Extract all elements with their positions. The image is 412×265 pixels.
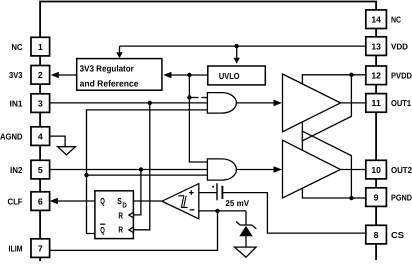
wire comp minus to zener [199, 210, 246, 212]
svg-text:and Reference: and Reference [80, 79, 139, 89]
wire AND1 output [236, 102, 274, 104]
junction dot interlock [84, 173, 88, 177]
latch R input wedge upper [129, 212, 134, 218]
pin 8 [366, 225, 387, 244]
svg-text:IN2: IN2 [10, 165, 23, 175]
latch box [95, 191, 133, 239]
wire AND2 output [236, 169, 274, 171]
junction dot IN1 [148, 101, 152, 105]
svg-text:OUT2: OUT2 [391, 165, 412, 175]
junction dot PVDD [349, 73, 353, 77]
wire enable to AND1 (with jump gap) [189, 97, 198, 99]
3V3 regulator box [77, 59, 162, 91]
svg-text:R: R [118, 225, 123, 235]
wire IN2 to latch R upper [133, 170, 141, 215]
pin 1 [31, 37, 50, 56]
wire interlock to AND2 [87, 174, 208, 176]
svg-text:4: 4 [38, 131, 43, 141]
svg-text:ILIM: ILIM [9, 243, 23, 253]
arrow into driver 2 [274, 166, 283, 173]
zener diode triangle [239, 226, 252, 236]
junction dot PGND [349, 196, 353, 200]
pin 4 [31, 127, 50, 146]
svg-text:S: S [117, 196, 122, 206]
svg-text:NC: NC [12, 42, 23, 52]
wire IN2 [50, 169, 208, 171]
wire ILIM to pin 7 [50, 211, 218, 251]
wire latch Q to pin 6 [57, 200, 95, 202]
svg-text:UVLO: UVLO [219, 71, 240, 81]
wire UVLO to 3V3 [171, 74, 208, 76]
svg-text:IN1: IN1 [10, 98, 23, 108]
pin 11 [366, 94, 387, 113]
junction dot UVLO line [187, 73, 191, 77]
svg-text:R: R [118, 211, 123, 221]
driver 1 output stage (rear) [302, 75, 351, 141]
pin 9 [366, 188, 387, 207]
arrow 3V3 to pin 2 [58, 74, 77, 76]
driver 1 buffer triangle [283, 74, 341, 132]
svg-text:11: 11 [371, 98, 381, 108]
pin 7 [31, 239, 50, 258]
svg-text:OUT1: OUT1 [391, 98, 411, 108]
battery 25 mV short bar [221, 186, 223, 199]
junction dot IN2 [139, 167, 143, 171]
svg-text:1: 1 [38, 42, 43, 52]
arrow into driver 1 [274, 100, 283, 107]
junction dot ILIM [215, 209, 219, 213]
svg-text:8: 8 [374, 230, 379, 240]
ground below zener [235, 247, 257, 257]
wire AGND from pin 4 [50, 136, 66, 147]
svg-text:14: 14 [371, 14, 381, 24]
comparator hysteresis glyph [178, 196, 188, 208]
wire battery to pin 8 CS [222, 193, 365, 234]
svg-text:13: 13 [371, 41, 381, 51]
svg-text:7: 7 [38, 243, 43, 253]
svg-text:6: 6 [38, 196, 43, 206]
and gate B (OUT2) [207, 159, 236, 180]
comparator [162, 184, 199, 219]
wire IN1 to latch R lower [133, 103, 149, 230]
svg-text:3: 3 [38, 98, 43, 108]
pin 3 [31, 94, 50, 113]
battery 25 mV long bar [216, 183, 218, 200]
pin 10 [366, 160, 387, 179]
UVLO box [208, 66, 265, 85]
pin 14 [366, 10, 387, 29]
wire OUT1 to pin 11 [341, 102, 366, 104]
driver 2 output stage (rear) [302, 131, 351, 198]
junction dot enable branch [187, 95, 191, 99]
svg-text:Q: Q [100, 225, 105, 235]
latch R input wedge lower [129, 227, 134, 233]
pin 5 [31, 160, 50, 179]
pin 13 [366, 37, 387, 56]
arrow VDD into UVLO box [236, 46, 238, 58]
svg-text:CS: CS [391, 230, 404, 240]
pin 12 [366, 66, 387, 85]
junction dot VDD/UVLO [235, 44, 239, 48]
pin 6 [31, 192, 50, 211]
pin 2 [31, 66, 50, 85]
svg-text:D: D [122, 201, 126, 210]
svg-text:CLF: CLF [8, 196, 23, 206]
wire PGND to pin 9 [351, 197, 365, 199]
svg-text:PGND: PGND [391, 192, 412, 202]
svg-text:NC: NC [391, 14, 401, 24]
svg-text:VDD: VDD [391, 41, 408, 51]
comparator minus [190, 209, 195, 211]
zener anode stem [245, 236, 247, 247]
wire UVLO enable down to AND gates [189, 75, 207, 162]
wire comp plus to battery [199, 192, 217, 194]
zener cathode bar [236, 222, 256, 229]
zener diode stem [245, 211, 247, 225]
and gate A (OUT1) [207, 93, 236, 114]
svg-text:5: 5 [38, 165, 43, 175]
svg-text:12: 12 [371, 71, 381, 81]
wire IN1 [50, 102, 208, 104]
svg-text:25 mV: 25 mV [225, 198, 249, 208]
wire VDD rail from pin 13 [120, 45, 366, 47]
wire OUT2 to pin 10 [341, 169, 366, 171]
wire PVDD to pin 12 [351, 74, 365, 76]
svg-text:3V3: 3V3 [9, 70, 23, 80]
svg-text:3V3 Regulator: 3V3 Regulator [80, 63, 135, 73]
svg-text:9: 9 [374, 192, 379, 202]
svg-text:AGND: AGND [0, 131, 23, 141]
svg-text:2: 2 [38, 70, 43, 80]
wire comparator out to latch S [133, 200, 161, 202]
svg-text:10: 10 [371, 165, 381, 175]
wire interlock /Q to AND1 [87, 110, 208, 234]
driver 2 buffer triangle [283, 140, 341, 198]
arrow into 3V3 right edge [163, 72, 171, 78]
ground AGND [58, 147, 76, 155]
battery plus mark [212, 186, 214, 188]
comparator plus [189, 190, 194, 195]
svg-text:Q: Q [100, 196, 105, 206]
svg-text:PVDD: PVDD [391, 71, 412, 81]
arrow VDD into 3V3 box [119, 46, 121, 53]
